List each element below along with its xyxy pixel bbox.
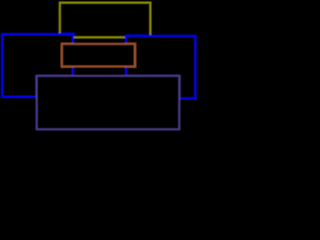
block darkslateblue (bottom) xyxy=(37,76,180,130)
block sienna (middle) xyxy=(62,44,135,67)
block blue left xyxy=(2,34,73,97)
block blue right xyxy=(126,36,196,99)
block olive (top) xyxy=(60,3,151,38)
